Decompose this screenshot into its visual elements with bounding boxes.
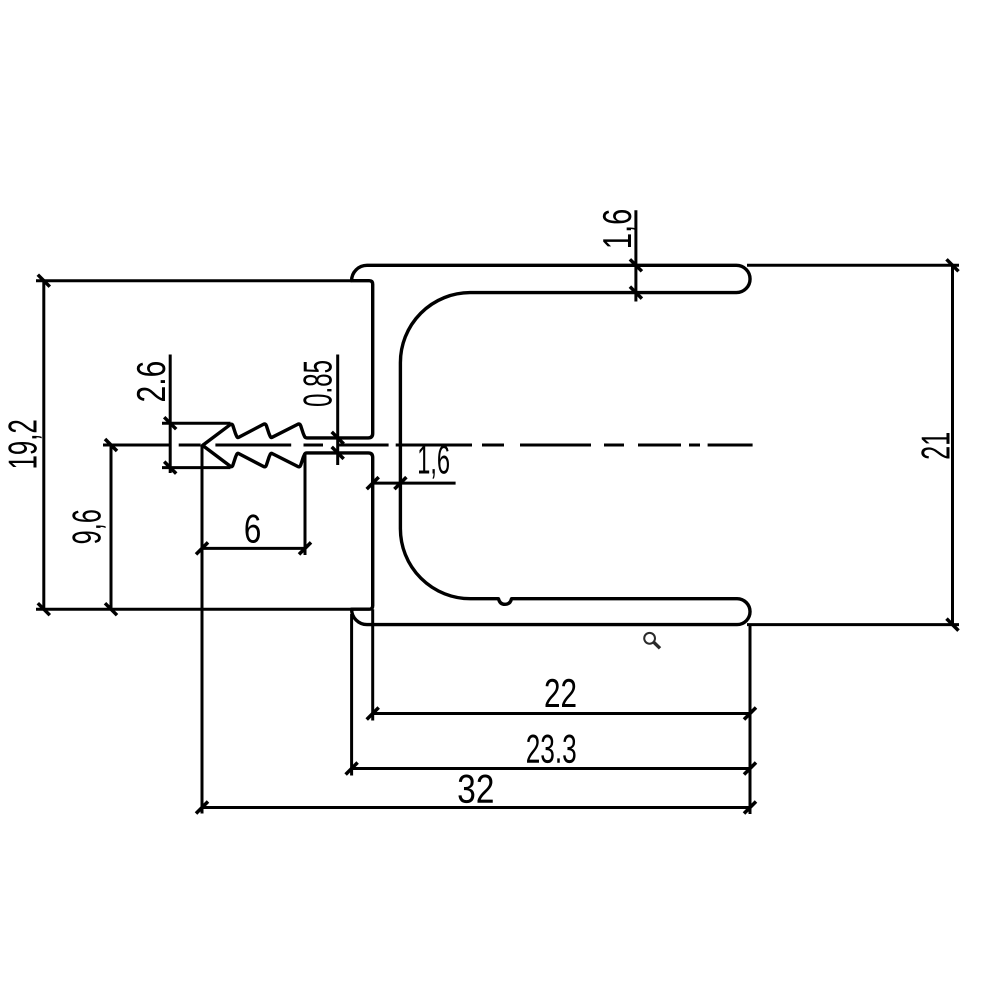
dimension 2.6 [164, 355, 176, 474]
extension line web outer x=372.7 vertical [371, 609, 374, 720]
extension line barb troughs y=467.2 [162, 466, 231, 469]
extension line profile left x=351.6 vertical [350, 614, 353, 776]
dim 19.2 text [8, 421, 41, 468]
dim 9.6 text [72, 510, 105, 543]
dim 21 text [921, 433, 949, 459]
extension line top lip y=280.7 [36, 279, 352, 282]
dimension 23.3 [346, 763, 756, 775]
extension line bottom lip y=609.2 [36, 608, 352, 611]
extension line profile right x=750 vertical [749, 625, 752, 814]
profile outline (U-channel with barbed leg) [203, 265, 750, 624]
dim 23.3 text [527, 735, 576, 764]
dimension 21 [947, 259, 959, 630]
extension line leg root x=305.6 vertical [304, 453, 307, 555]
dimension 1.6 mid (web thickness) [367, 477, 456, 489]
dim 0.85 text [303, 361, 332, 406]
dim 32 text [458, 775, 492, 804]
dimension 1.6 top [630, 210, 642, 301]
dimension 9.6 [105, 439, 117, 615]
dim 2.6 text [137, 362, 166, 401]
dimension 32 [196, 802, 756, 814]
dim 22 text [546, 679, 576, 707]
dimension 22 [367, 708, 756, 720]
extension line barb tip x=202 vertical [201, 445, 204, 813]
extension line barb peaks y=422.8 [162, 422, 231, 425]
dimension 0.85 [332, 355, 344, 466]
centerline (dash-dot axis) [103, 444, 753, 447]
dimension 19.2 [38, 275, 50, 616]
extension line bottom outer y=624.6 [747, 623, 959, 626]
dim 1.6 top text [603, 210, 636, 247]
magnifier icon [644, 633, 660, 648]
dim 1.6 mid text [419, 445, 449, 478]
dimension 6 [196, 542, 311, 554]
dim 6 text [245, 514, 259, 543]
extension line top outer y=265.3 [747, 264, 959, 267]
